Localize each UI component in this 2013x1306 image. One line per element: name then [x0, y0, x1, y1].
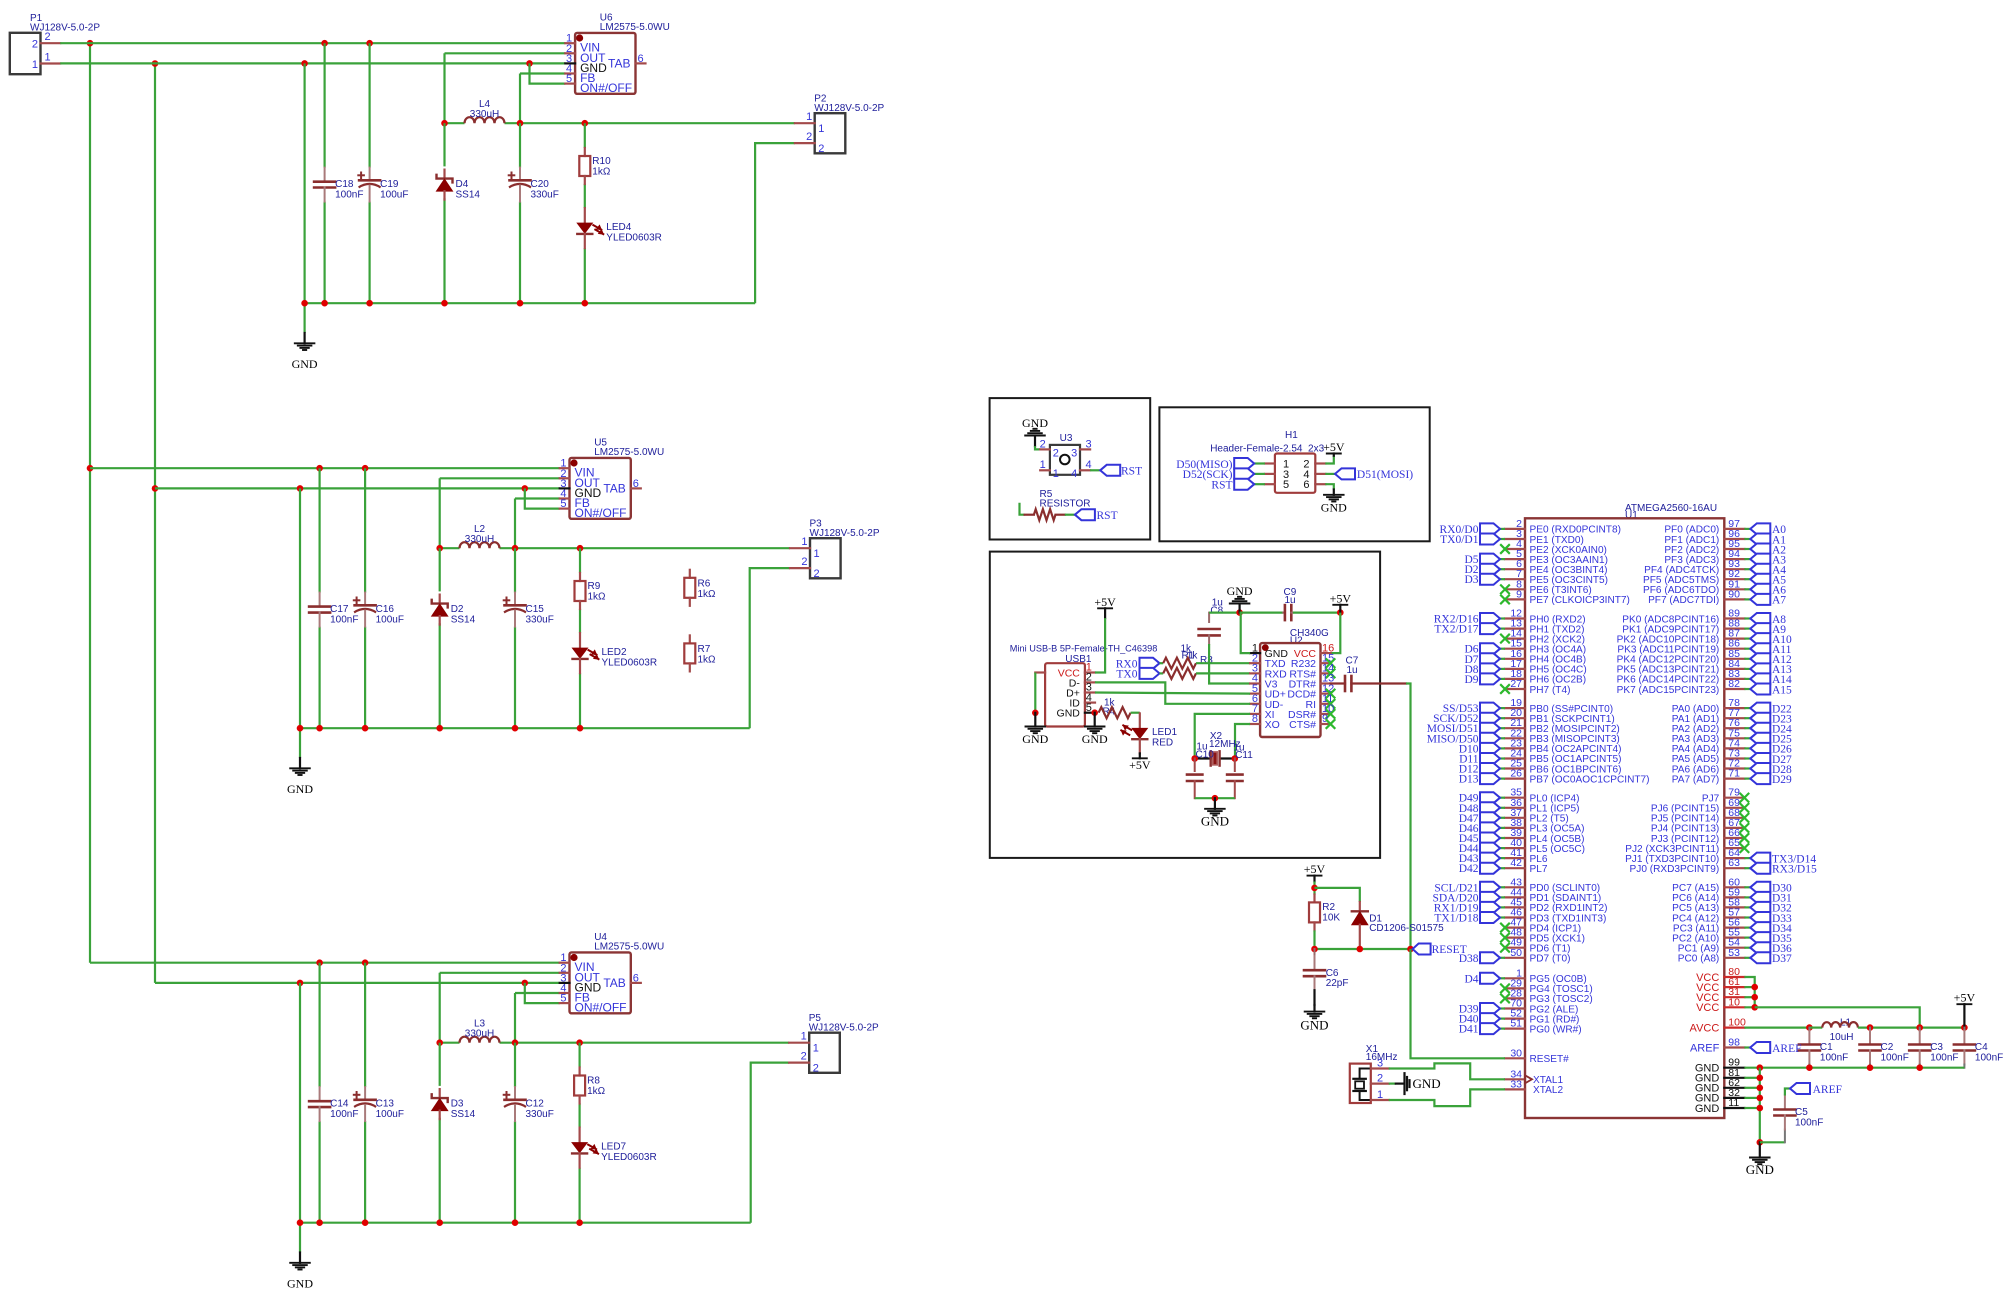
svg-text:AREF: AREF	[1772, 1043, 1801, 1055]
pin 57 PC4 (A12) of U1	[1724, 916, 1744, 918]
svg-text:D42: D42	[1459, 863, 1479, 875]
pin 2 of P5	[789, 1061, 809, 1063]
svg-text:5: 5	[560, 498, 566, 510]
wire wire flag A15 to U1 pin 82	[1744, 688, 1750, 690]
svg-text:26: 26	[1510, 768, 1522, 780]
wire OUT vertical section1	[443, 53, 445, 123]
pin 30 RESET# of U1	[1505, 1057, 1525, 1059]
svg-text:D4: D4	[1464, 973, 1478, 985]
wire FB vertical section2	[514, 499, 516, 549]
pin 1 VIN of U6	[565, 42, 575, 44]
pin VCC 61 of U1	[1724, 986, 1744, 988]
resistor R10	[584, 148, 586, 156]
ground flag sideways at X1	[1396, 1082, 1404, 1084]
svg-text:D51(MOSI): D51(MOSI)	[1357, 469, 1413, 481]
pin 15 R232 of U2	[1321, 662, 1331, 664]
net flag A11	[1750, 643, 1770, 654]
wire wire USB1 shell to GND	[1034, 673, 1036, 713]
pin 45 PD2 (RXD1INT2) of U1	[1505, 906, 1525, 908]
junction rail-C2	[362, 1219, 369, 1226]
junction rail-LED	[577, 725, 584, 732]
net flag D23	[1750, 713, 1770, 724]
ground symbol USB1 left	[1034, 713, 1036, 727]
svg-text:GND: GND	[1695, 1103, 1720, 1115]
inductor L3	[460, 1037, 500, 1043]
net flag D8	[1480, 663, 1500, 674]
no-connect X on U2 pin 11	[1326, 699, 1336, 709]
pin VCC 31 of U1	[1724, 996, 1744, 998]
junction ON/OFF tie	[522, 980, 529, 987]
net flag TX1/D18	[1480, 912, 1500, 923]
wire wire flag MOSI/D51 to U1 pin 21	[1499, 727, 1505, 729]
wire wire junction GND81	[1744, 1077, 1759, 1079]
pin 19 PB0 (SS#PCINT0) of U1	[1505, 707, 1525, 709]
svg-text:330uH: 330uH	[465, 1029, 494, 1040]
wire wire R5 to RST flag	[1065, 514, 1075, 516]
svg-text:YLED0603R: YLED0603R	[601, 1152, 657, 1163]
svg-text:1kΩ: 1kΩ	[698, 589, 717, 600]
svg-text:100nF: 100nF	[1930, 1053, 1958, 1064]
pin 3 RXD of U2	[1250, 672, 1260, 674]
junction rail-C1	[316, 1219, 323, 1226]
junction GND drop	[297, 980, 304, 987]
svg-text:D37: D37	[1772, 953, 1792, 965]
svg-text:PE7 (CLKOICP3INT7): PE7 (CLKOICP3INT7)	[1530, 595, 1630, 606]
LED LED4	[584, 208, 586, 223]
pin 13 PH1 (TXD2) of U1	[1505, 627, 1525, 629]
svg-text:100nF: 100nF	[330, 615, 358, 626]
svg-text:D2: D2	[451, 604, 464, 615]
wire C100n gnd section3	[319, 1121, 321, 1223]
wire wire H1 pin4 to D51	[1325, 473, 1335, 475]
svg-text:R10: R10	[592, 156, 611, 167]
wire wire flag D34 to U1 pin 56	[1744, 926, 1750, 928]
diode D2	[439, 595, 441, 604]
wire wire C8 bottom to V3	[1209, 644, 1250, 684]
svg-text:1: 1	[45, 52, 51, 64]
pin 3 GND of U5	[560, 487, 570, 489]
junction rail-C1	[321, 300, 328, 307]
no-connect X on U1 pin 67	[1740, 823, 1750, 833]
wire wire flag A10 to U1 pin 87	[1744, 637, 1750, 639]
svg-text:GND: GND	[1022, 732, 1048, 746]
pin 33 XTAL2 of U1	[1505, 1088, 1525, 1090]
pin 43 PD0 (SCLINT0) of U1	[1505, 886, 1525, 888]
svg-text:100nF: 100nF	[1820, 1053, 1848, 1064]
wire diode top section1	[443, 123, 445, 166]
pin 12 PH0 (RXD2) of U1	[1505, 617, 1525, 619]
svg-text:C11: C11	[1235, 750, 1253, 761]
wire wire flag D45 to U1 pin 39	[1499, 837, 1505, 839]
net flag D13	[1480, 773, 1500, 784]
junction rail-D	[436, 725, 443, 732]
svg-text:TAB: TAB	[608, 56, 630, 70]
pin 36 PL1 (ICP5) of U1	[1505, 807, 1525, 809]
svg-text:R8: R8	[587, 1076, 600, 1087]
power symbol +5V (AVCC rail)	[1963, 1004, 1965, 1027]
svg-text:9: 9	[1516, 588, 1522, 600]
pin 10 DSR# of U2	[1321, 713, 1331, 715]
net flag D31	[1750, 892, 1770, 903]
svg-text:TX0/D1: TX0/D1	[1440, 534, 1479, 546]
pin 6 of H1	[1315, 483, 1325, 485]
net flag TX2/D17	[1480, 623, 1500, 634]
pin 88 PK1 (ADC9PCINT17) of U1	[1724, 627, 1744, 629]
junction VCC 10	[1751, 1004, 1758, 1011]
pin 28 PG3 (TOSC2) of U1	[1505, 997, 1525, 999]
pin 58 PC5 (A13) of U1	[1724, 906, 1744, 908]
svg-text:100nF: 100nF	[330, 1109, 358, 1120]
svg-text:YLED0603R: YLED0603R	[606, 233, 662, 244]
wire wire RESET row	[1315, 948, 1411, 950]
svg-text:R7: R7	[698, 644, 711, 655]
svg-text:GND: GND	[1300, 1018, 1328, 1033]
net flag RST (U3)	[1100, 465, 1120, 476]
wire wire flag A11 to U1 pin 86	[1744, 648, 1750, 650]
svg-text:51: 51	[1510, 1018, 1522, 1030]
net flag A6	[1750, 584, 1770, 595]
wire wire D50(MISO) to H1	[1254, 462, 1265, 464]
junction C-out	[517, 120, 524, 127]
wire ground stem section3	[299, 983, 301, 1253]
svg-text:LED4: LED4	[606, 222, 631, 233]
pin 3 of U3	[1080, 448, 1090, 450]
svg-text:SS14: SS14	[451, 615, 476, 626]
wire diode bottom section3	[439, 1118, 441, 1223]
svg-text:100nF: 100nF	[1795, 1118, 1823, 1129]
net flag A13	[1750, 663, 1770, 674]
wire wire flag D2 to U1 pin 6	[1499, 568, 1505, 570]
wire wire RESET to U1	[1411, 949, 1506, 1058]
wire wire DTR# to RESET node	[1406, 684, 1411, 950]
svg-text:2: 2	[806, 131, 812, 143]
wire Cout gnd section3	[514, 1121, 516, 1223]
svg-text:WJ128V-5.0-2P: WJ128V-5.0-2P	[810, 528, 880, 539]
junction R top	[582, 120, 589, 127]
pin 9 CTS# of U2	[1321, 723, 1331, 725]
wire P2 pin2 wire section1	[755, 143, 795, 303]
ground symbol below H1	[1333, 490, 1335, 495]
svg-text:6: 6	[1303, 479, 1309, 491]
pin 1 VCC of USB1	[1085, 671, 1095, 673]
junction C3 bottom	[1916, 1064, 1923, 1071]
net flag D3	[1480, 574, 1500, 585]
junction rail-LED	[582, 300, 589, 307]
svg-text:1: 1	[1053, 468, 1059, 480]
net flag D52(SCK)	[1234, 468, 1254, 479]
pin 1 of P5	[789, 1042, 809, 1044]
pin 27 PH7 (T4) of U1	[1505, 688, 1525, 690]
svg-text:D13: D13	[1459, 774, 1479, 786]
wire wire crystal ground rail	[1195, 797, 1235, 799]
wire wire flag D47 to U1 pin 37	[1499, 817, 1505, 819]
pin 87 PK2 (ADC10PCINT18) of U1	[1724, 637, 1744, 639]
wire diode top section3	[439, 1043, 441, 1086]
net flag SCK/D52	[1480, 713, 1500, 724]
pin 54 PC1 (A9) of U1	[1724, 947, 1744, 949]
svg-text:+5V: +5V	[1129, 758, 1151, 772]
wire wire H1 pin6 to GND	[1325, 484, 1334, 489]
wire wire R1 to U2 TXD	[1196, 662, 1250, 664]
wire wire flag D9 to U1 pin 18	[1499, 678, 1505, 680]
svg-text:R6: R6	[698, 579, 711, 590]
junction rail-C2	[362, 725, 369, 732]
pin 23 PB4 (OC2APCINT4) of U1	[1505, 747, 1525, 749]
net flag AREF (C5)	[1790, 1083, 1810, 1094]
net flag D38	[1480, 952, 1500, 963]
svg-text:330uF: 330uF	[526, 615, 554, 626]
wire wire TX0 flag to R3	[1160, 672, 1164, 674]
junction rail-C2	[366, 300, 373, 307]
svg-text:RESET#: RESET#	[1530, 1054, 1570, 1065]
pin 4 V3 of U2	[1250, 682, 1260, 684]
wire wire XI to crystal	[1195, 714, 1250, 759]
net flag SS/D53	[1480, 703, 1500, 714]
pin 5 ON#/OFF of U6	[565, 82, 575, 84]
junction C2 top	[1867, 1024, 1874, 1031]
svg-text:C1: C1	[1820, 1042, 1833, 1053]
no-connect X on U1 pin 66	[1740, 833, 1750, 843]
wire net GND section2	[155, 487, 560, 489]
svg-text:C8: C8	[1210, 606, 1223, 617]
svg-text:XO: XO	[1265, 719, 1280, 731]
wire diode top section2	[439, 548, 441, 591]
wire output row after L section1	[505, 122, 795, 124]
wire R feed section3	[578, 1043, 580, 1068]
pin 49 PD6 (T1) of U1	[1505, 947, 1525, 949]
pin 38 PL3 (OC5A) of U1	[1505, 827, 1525, 829]
wire C100n feed section1	[324, 43, 326, 167]
svg-text:GND: GND	[292, 357, 318, 371]
wire wire flag D43 to U1 pin 41	[1499, 857, 1505, 859]
pin 83 PK6 (ADC14PCINT22) of U1	[1724, 678, 1744, 680]
wire wire flag D13 to U1 pin 26	[1499, 777, 1505, 779]
junction +5V R2 D1	[1311, 885, 1318, 892]
wire wire flag SCL/D21 to U1 pin 43	[1499, 886, 1505, 888]
svg-text:1: 1	[1377, 1089, 1383, 1101]
capacitor C18	[324, 168, 326, 182]
pin 65 PJ2 (XCK3PCINT11) of U1	[1724, 847, 1744, 849]
wire OUT vertical section3	[439, 973, 441, 1043]
svg-text:AVCC: AVCC	[1690, 1022, 1720, 1034]
pin 7 PE5 (OC3CINT5) of U1	[1505, 578, 1525, 580]
svg-text:+5V: +5V	[1330, 591, 1352, 605]
wire output row section2	[440, 547, 460, 549]
junction GND top	[152, 60, 159, 67]
wire wire flag D29 to U1 pin 71	[1744, 777, 1750, 779]
svg-text:LM2575-5.0WU: LM2575-5.0WU	[594, 447, 664, 458]
pin 2 PE0 (RXD0PCINT8) of U1	[1505, 528, 1525, 530]
net flag D42	[1480, 863, 1500, 874]
wire net VIN section2	[90, 467, 560, 469]
wire ON/OFF wire section1	[530, 63, 566, 83]
junction VIN-C	[316, 959, 323, 966]
wire OUT drop section1	[445, 52, 566, 54]
wire wire flag TX0/D1 to U1 pin 3	[1499, 538, 1505, 540]
net flag D26	[1750, 743, 1770, 754]
svg-text:330uF: 330uF	[526, 1109, 554, 1120]
pin 4 PE2 (XCK0AIN0) of U1	[1505, 548, 1525, 550]
wire wire junction GND32	[1744, 1097, 1759, 1099]
junction shell GND	[1032, 710, 1039, 717]
wire wire D52(SCK) to H1	[1254, 473, 1265, 475]
wire wire GND to U3 pin2	[1035, 446, 1040, 449]
wire OUT vertical section2	[439, 478, 441, 548]
pin 22 PB3 (MISOPCINT3) of U1	[1505, 737, 1525, 739]
svg-text:PL7: PL7	[1530, 864, 1548, 875]
capacitor C15	[514, 593, 516, 606]
net flag D9	[1480, 673, 1500, 684]
svg-text:330uH: 330uH	[470, 109, 499, 120]
net flag A8	[1750, 613, 1770, 624]
svg-text:3: 3	[1086, 438, 1092, 450]
pin 2 TXD of U2	[1250, 662, 1260, 664]
wire wire flag D48 to U1 pin 36	[1499, 807, 1505, 809]
wire wire flag D38 to U1 pin 50	[1499, 957, 1505, 959]
resistor R7	[689, 635, 691, 643]
pin 41 PL6 of U1	[1505, 857, 1525, 859]
net flag RX1/D19	[1480, 902, 1500, 913]
wire output row section1	[445, 122, 465, 124]
wire C100n feed section3	[319, 963, 321, 1087]
net flag D35	[1750, 932, 1770, 943]
svg-text:27: 27	[1510, 678, 1522, 690]
pin 25 PB6 (OC1BPCINT6) of U1	[1505, 767, 1525, 769]
svg-text:1kΩ: 1kΩ	[592, 167, 611, 178]
svg-text:5: 5	[1086, 702, 1092, 714]
pin 12 DCD# of U2	[1321, 692, 1331, 694]
wire wire flag A7 to U1 pin 90	[1744, 598, 1750, 600]
wire C100n gnd section2	[319, 627, 321, 729]
power symbol +5V below LED1 (inverted)	[1139, 753, 1141, 758]
net flag D11	[1480, 753, 1500, 764]
junction XO-C11	[1232, 755, 1239, 762]
wire wire R2 to RESET	[1313, 930, 1315, 949]
junction VCC 31	[1751, 994, 1758, 1001]
svg-text:90: 90	[1728, 588, 1740, 600]
pin 64 PJ1 (TXD3PCINT10) of U1	[1724, 857, 1744, 859]
junction C4 top	[1961, 1024, 1968, 1031]
capacitor C4 100nF	[1963, 1028, 1965, 1031]
pin 1 of H1	[1265, 462, 1275, 464]
pin 47 PD4 (ICP1) of U1	[1505, 926, 1525, 928]
pin 77 PA1 (AD1) of U1	[1724, 717, 1744, 719]
connector P5 WJ128V-5.0-2P	[809, 1033, 840, 1073]
capacitor C20	[519, 168, 521, 181]
wire wire flag D41 to U1 pin 51	[1499, 1027, 1505, 1029]
pin 4 FB of U4	[560, 992, 570, 994]
pin 9 PE7 (CLKOICP3INT7) of U1	[1505, 598, 1525, 600]
pin 3 D+ of USB1	[1085, 691, 1095, 693]
net flag D27	[1750, 753, 1770, 764]
pin 4 ID of USB1	[1085, 701, 1095, 703]
junction USB1 GND pin	[1091, 709, 1098, 716]
resistor R2	[1313, 894, 1315, 902]
wire R-LED wire section3	[578, 1103, 580, 1127]
svg-text:D3: D3	[1464, 574, 1478, 586]
svg-text:PF7 (ADC7TDI): PF7 (ADC7TDI)	[1648, 595, 1719, 606]
diode D1 CD1206-S01575	[1359, 902, 1361, 911]
svg-text:2: 2	[818, 143, 824, 155]
svg-text:100uF: 100uF	[380, 190, 408, 201]
no-connect X on U1 pin 8	[1500, 585, 1510, 595]
wire LED gnd section1	[584, 248, 586, 303]
resistor R8	[578, 1068, 580, 1076]
junction XI-C10	[1191, 755, 1198, 762]
net flag D39	[1480, 1003, 1500, 1014]
LED LED1	[1139, 713, 1141, 728]
net flag A12	[1750, 653, 1770, 664]
wire wire flag D30 to U1 pin 60	[1744, 886, 1750, 888]
pin 6 TAB of U4	[631, 982, 641, 984]
svg-text:GND: GND	[1201, 813, 1229, 828]
wire FB wire section3	[515, 992, 560, 994]
wire wire VCC 31	[1744, 996, 1754, 998]
wire diode bottom section2	[439, 623, 441, 728]
pin 26 PB7 (OC0AOC1CPCINT7) of U1	[1505, 777, 1525, 779]
svg-text:PG0 (WR#): PG0 (WR#)	[1530, 1024, 1582, 1035]
net flag MOSI/D51	[1480, 723, 1500, 734]
pin 2 of P1	[41, 42, 61, 44]
svg-text:H1: H1	[1285, 430, 1298, 441]
net flag RESET	[1413, 944, 1431, 955]
pin 50 PD7 (T0) of U1	[1505, 957, 1525, 959]
svg-text:R3: R3	[1200, 655, 1213, 666]
pin 3 PE1 (TXD0) of U1	[1505, 538, 1525, 540]
svg-text:RED: RED	[1152, 738, 1173, 749]
svg-text:330uH: 330uH	[465, 534, 494, 545]
wire R-LED wire section2	[579, 609, 581, 633]
wire FB vertical section1	[519, 74, 521, 124]
net flag A9	[1750, 623, 1770, 634]
net flag D33	[1750, 912, 1770, 923]
svg-text:GND: GND	[1746, 1162, 1774, 1177]
svg-text:GND: GND	[1057, 708, 1081, 720]
junction GND11	[1757, 1105, 1764, 1112]
wire P5 pin2 wire section3	[751, 1063, 790, 1223]
wire R feed section1	[584, 123, 586, 148]
svg-text:1: 1	[1040, 459, 1046, 471]
svg-text:3: 3	[1377, 1057, 1383, 1069]
wire wire R3 to U2 RXD	[1196, 672, 1250, 674]
wire wire flag A13 to U1 pin 84	[1744, 668, 1750, 670]
wire wire junction GND62	[1744, 1087, 1759, 1089]
junction VIN-C2	[366, 40, 373, 47]
wire C100u gnd section3	[364, 1121, 366, 1223]
pin 14 PH2 (XCK2) of U1	[1505, 637, 1525, 639]
pin 1 of X1	[1371, 1099, 1389, 1101]
junction RESET-flag	[1407, 946, 1414, 953]
no-connect X on U1 pin 9	[1500, 595, 1510, 605]
svg-text:2: 2	[801, 1051, 807, 1063]
net flag TX3/D14	[1750, 853, 1770, 864]
svg-text:WJ128V-5.0-2P: WJ128V-5.0-2P	[814, 103, 884, 114]
pin 39 PL4 (OC5B) of U1	[1505, 837, 1525, 839]
svg-text:5: 5	[560, 993, 566, 1005]
wire OUT drop section2	[440, 477, 560, 479]
wire R-LED wire section1	[584, 184, 586, 208]
pin 21 PB2 (MOSIPCINT2) of U1	[1505, 727, 1525, 729]
svg-text:C18: C18	[335, 179, 354, 190]
pin 2 OUT of U4	[560, 972, 570, 974]
svg-text:PJ0 (RXD3PCINT9): PJ0 (RXD3PCINT9)	[1630, 864, 1720, 875]
junction rail-C1	[316, 725, 323, 732]
net flag SDA/D20	[1480, 892, 1500, 903]
junction rail-LED	[576, 1219, 583, 1226]
svg-text:1: 1	[813, 1043, 819, 1055]
wire C100u feed section1	[369, 43, 371, 167]
wire wire C5 to AREF flag	[1785, 1089, 1790, 1096]
